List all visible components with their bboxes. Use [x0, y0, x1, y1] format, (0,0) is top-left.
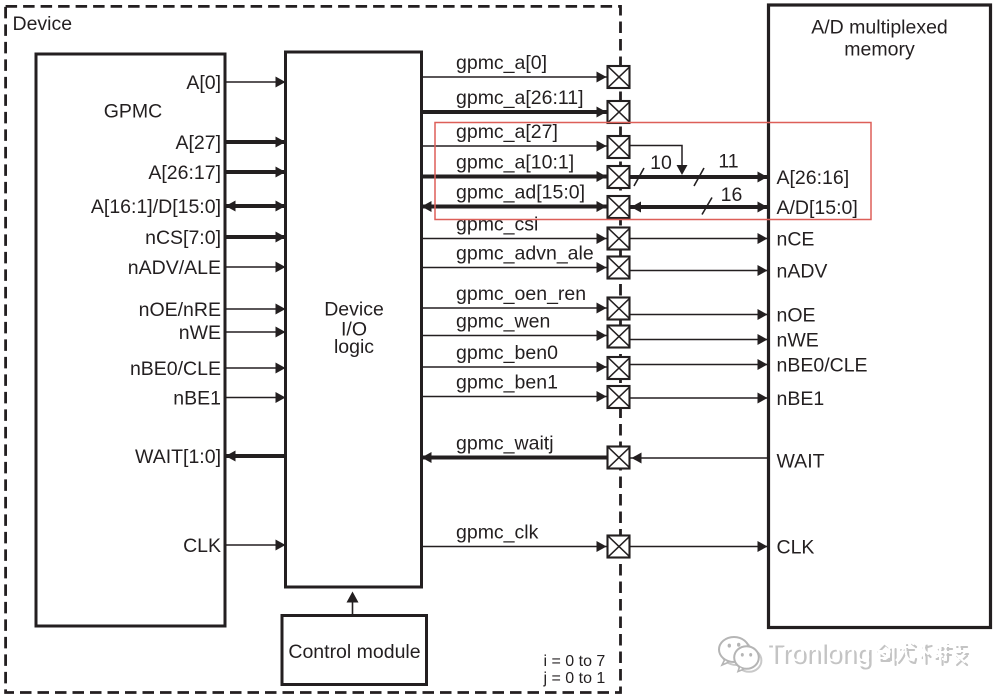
- label A[0]: [186, 72, 221, 94]
- wire A[26:17] GPMC-to-IO: [226, 167, 286, 178]
- label GPMC: [104, 101, 163, 123]
- pad (I/O cell) gpmc_ben0: [608, 357, 630, 379]
- pad (I/O cell) gpmc_advn_ale: [608, 257, 630, 279]
- wire nADV/ALE GPMC-to-IO: [226, 262, 286, 273]
- svg-text:gpmc_clk: gpmc_clk: [456, 522, 539, 544]
- wire pad-to-memory WAIT: [631, 453, 769, 464]
- pad (I/O cell) gpmc_ben1: [608, 386, 630, 408]
- bus-width slash 10: [634, 152, 672, 186]
- wire nWE GPMC-to-IO: [226, 327, 286, 338]
- svg-text:gpmc_ben1: gpmc_ben1: [456, 372, 558, 394]
- svg-text:logic: logic: [334, 336, 374, 358]
- block Control module: [282, 616, 427, 685]
- label gpmc_clk: [456, 522, 539, 544]
- pad (I/O cell) gpmc_a[10:1]: [608, 166, 630, 188]
- label CLK: [183, 535, 221, 557]
- wire gpmc_oen_ren IO-to-pad: [422, 303, 607, 314]
- label nBE1: [173, 388, 221, 410]
- svg-text:memory: memory: [844, 39, 915, 61]
- bus-width slash 16: [702, 184, 742, 215]
- label nBE1: [777, 388, 825, 410]
- wire gpmc_a[26:11] IO-to-pad: [422, 107, 607, 118]
- wire gpmc_a[0] IO-to-pad: [422, 72, 607, 83]
- svg-text:gpmc_ad[15:0]: gpmc_ad[15:0]: [456, 182, 585, 204]
- svg-text:WAIT[1:0]: WAIT[1:0]: [135, 446, 221, 468]
- label A/D[15:0]: [777, 197, 858, 219]
- watermark text Tronlong: [766, 637, 873, 670]
- watermark WeChat logo: [719, 637, 761, 672]
- wire gpmc_waitj IO-to-pad: [422, 452, 607, 463]
- label gpmc_a[10:1]: [456, 152, 574, 174]
- block GPMC: [36, 54, 225, 626]
- pad (I/O cell) gpmc_a[27]: [608, 136, 630, 158]
- svg-text:A/D multiplexed: A/D multiplexed: [811, 17, 948, 39]
- wire gpmc_ad[15:0] IO-to-pad: [422, 201, 607, 212]
- svg-text:11: 11: [718, 151, 738, 173]
- svg-text:gpmc_oen_ren: gpmc_oen_ren: [456, 283, 586, 305]
- wire gpmc_a[10:1] IO-to-pad: [422, 171, 607, 182]
- pad (I/O cell) gpmc_waitj: [608, 447, 630, 469]
- note i = 0 to 7 / j = 0 to 1: [543, 653, 606, 687]
- label gpmc_ben0: [456, 342, 558, 364]
- label gpmc_a[26:11]: [456, 87, 584, 109]
- svg-text:nBE0/CLE: nBE0/CLE: [130, 358, 221, 380]
- wire gpmc_clk IO-to-pad: [422, 541, 607, 552]
- svg-text:j = 0 to 1: j = 0 to 1: [543, 670, 606, 687]
- pad (I/O cell) gpmc_clk: [608, 536, 630, 558]
- pad (I/O cell) gpmc_oen_ren: [608, 298, 630, 320]
- wire pad-to-memory nWE: [631, 334, 769, 345]
- bus-width slash 11: [694, 151, 739, 187]
- label gpmc_ad[15:0]: [456, 182, 585, 204]
- label A/D multiplexed memory: [811, 17, 948, 61]
- wire pad-to-memory CLK: [631, 541, 769, 552]
- label nWE: [777, 330, 819, 352]
- wire pad-to-memory nCE: [631, 233, 769, 244]
- svg-text:A/D[15:0]: A/D[15:0]: [777, 197, 858, 219]
- svg-text:i = 0 to 7: i = 0 to 7: [544, 653, 606, 670]
- pad (I/O cell) gpmc_wen: [608, 326, 630, 348]
- wire CLK GPMC-to-IO: [226, 540, 286, 551]
- label nBE0/CLE: [130, 358, 221, 380]
- svg-text:Control module: Control module: [288, 641, 420, 663]
- svg-text:16: 16: [721, 184, 743, 206]
- svg-text:gpmc_waitj: gpmc_waitj: [456, 433, 554, 455]
- label gpmc_a[0]: [456, 52, 547, 74]
- svg-text:nWE: nWE: [179, 322, 221, 344]
- svg-text:nCE: nCE: [777, 229, 815, 251]
- svg-text:A[16:1]/D[15:0]: A[16:1]/D[15:0]: [91, 196, 221, 218]
- label gpmc_wen: [456, 311, 550, 333]
- wire gpmc_ben0 IO-to-pad: [422, 362, 607, 373]
- device boundary (dashed box "Device"): [6, 6, 621, 692]
- wire pad-to-memory nOE: [631, 309, 769, 320]
- svg-text:gpmc_ben0: gpmc_ben0: [456, 342, 558, 364]
- wire gpmc_advn_ale IO-to-pad: [422, 262, 607, 273]
- svg-text:nBE1: nBE1: [777, 388, 825, 410]
- wire nBE0/CLE GPMC-to-IO: [226, 363, 286, 374]
- label A[26:17]: [148, 162, 221, 184]
- wire pad-to-memory nADV: [631, 265, 769, 276]
- svg-text:Tronlong: Tronlong: [766, 637, 871, 667]
- highlight box (red) over muxed address/data signals: [435, 123, 871, 220]
- svg-text:Device: Device: [324, 299, 384, 321]
- svg-text:gpmc_a[10:1]: gpmc_a[10:1]: [456, 152, 574, 174]
- svg-text:gpmc_wen: gpmc_wen: [456, 311, 550, 333]
- wire gpmc_ben1 IO-to-pad: [422, 391, 607, 402]
- svg-text:CLK: CLK: [777, 537, 815, 559]
- block A/D multiplexed memory: [769, 5, 991, 628]
- label WAIT: [777, 451, 825, 473]
- wire pad-to-memory nBE1: [631, 393, 769, 404]
- svg-text:gpmc_csi: gpmc_csi: [456, 214, 538, 236]
- svg-text:nOE/nRE: nOE/nRE: [139, 299, 221, 321]
- label nCE: [777, 229, 815, 251]
- pad (I/O cell) gpmc_a[26:11]: [608, 101, 630, 123]
- svg-text:10: 10: [650, 152, 672, 174]
- svg-text:Device: Device: [13, 13, 73, 35]
- label WAIT[1:0]: [135, 446, 221, 468]
- svg-text:GPMC: GPMC: [104, 101, 163, 123]
- label nOE/nRE: [139, 299, 221, 321]
- wire nOE/nRE GPMC-to-IO: [226, 304, 286, 315]
- wire gpmc_a[27] elbow to address bus: [631, 146, 688, 176]
- label nWE: [179, 322, 221, 344]
- wire gpmc_csi IO-to-pad: [422, 233, 607, 244]
- label nADV/ALE: [128, 257, 221, 279]
- label gpmc_a[27]: [456, 121, 558, 143]
- block U1 Device I/O logic: [286, 52, 422, 587]
- wire nCS[7:0] GPMC-to-IO: [226, 232, 286, 243]
- label gpmc_csi: [456, 214, 538, 236]
- svg-text:nBE1: nBE1: [173, 388, 221, 410]
- watermark text (CJK glyph strokes): [876, 641, 968, 665]
- wire address bus A[26:16] (11): [631, 172, 769, 183]
- svg-text:nBE0/CLE: nBE0/CLE: [777, 355, 868, 377]
- label A[27]: [175, 132, 221, 154]
- svg-text:A[26:16]: A[26:16]: [777, 167, 850, 189]
- svg-text:nWE: nWE: [777, 330, 819, 352]
- label Device: [13, 13, 73, 35]
- svg-text:nADV: nADV: [777, 261, 828, 283]
- wire A[27] GPMC-to-IO: [226, 137, 286, 148]
- label nOE: [777, 305, 816, 327]
- wire data bus A/D[15:0] (16, bidirectional): [631, 202, 769, 213]
- wire nBE1 GPMC-to-IO: [226, 392, 286, 403]
- wire control module to I/O logic (up arrow): [347, 592, 359, 616]
- svg-text:WAIT: WAIT: [777, 451, 825, 473]
- svg-text:gpmc_a[0]: gpmc_a[0]: [456, 52, 547, 74]
- pad (I/O cell) gpmc_csi: [608, 228, 630, 250]
- label nBE0/CLE: [777, 355, 868, 377]
- svg-text:gpmc_a[27]: gpmc_a[27]: [456, 121, 558, 143]
- wire pad-to-memory nBE0/CLE: [631, 359, 769, 370]
- svg-text:nCS[7:0]: nCS[7:0]: [145, 227, 221, 249]
- svg-text:A[26:17]: A[26:17]: [148, 162, 221, 184]
- label gpmc_waitj: [456, 433, 554, 455]
- pad (I/O cell) gpmc_ad[15:0]: [608, 196, 630, 218]
- svg-text:A[27]: A[27]: [175, 132, 221, 154]
- svg-text:gpmc_a[26:11]: gpmc_a[26:11]: [456, 87, 584, 109]
- svg-text:nOE: nOE: [777, 305, 816, 327]
- wire gpmc_a[27] IO-to-pad: [422, 141, 607, 152]
- svg-text:A[0]: A[0]: [186, 72, 221, 94]
- svg-text:CLK: CLK: [183, 535, 221, 557]
- label A[16:1]/D[15:0]: [91, 196, 221, 218]
- wire WAIT[1:0] GPMC-to-IO: [226, 451, 286, 462]
- label A[26:16]: [777, 167, 850, 189]
- svg-text:nADV/ALE: nADV/ALE: [128, 257, 221, 279]
- label gpmc_advn_ale: [456, 243, 594, 265]
- pad (I/O cell) gpmc_a[0]: [608, 66, 630, 88]
- label Device I/O logic: [324, 299, 384, 359]
- label gpmc_oen_ren: [456, 283, 586, 305]
- label gpmc_ben1: [456, 372, 558, 394]
- label Control module: [288, 641, 420, 663]
- wire gpmc_wen IO-to-pad: [422, 330, 607, 341]
- wire A[0] GPMC-to-IO: [226, 77, 286, 88]
- wire A[16:1]/D[15:0] GPMC-to-IO: [226, 201, 286, 212]
- label CLK: [777, 537, 815, 559]
- label nCS[7:0]: [145, 227, 221, 249]
- svg-text:gpmc_advn_ale: gpmc_advn_ale: [456, 243, 594, 265]
- label nADV: [777, 261, 828, 283]
